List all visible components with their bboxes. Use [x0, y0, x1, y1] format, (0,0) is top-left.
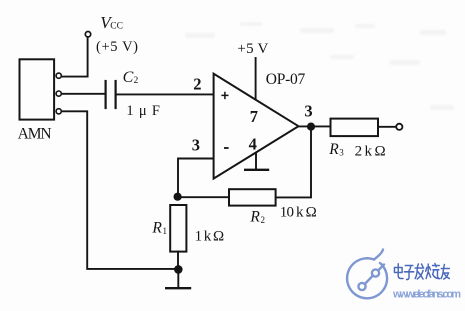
- svg-text:2: 2: [193, 75, 201, 94]
- svg-text:R: R: [249, 209, 260, 226]
- svg-text:+5 V: +5 V: [237, 41, 268, 57]
- svg-text:7: 7: [250, 107, 258, 126]
- svg-text:10 k Ω: 10 k Ω: [280, 205, 317, 221]
- svg-text:1 k Ω: 1 k Ω: [195, 229, 225, 245]
- svg-text:AMN: AMN: [18, 125, 52, 142]
- svg-text:3: 3: [304, 101, 312, 120]
- svg-text:3: 3: [339, 147, 344, 157]
- svg-text:2: 2: [261, 215, 266, 225]
- svg-text:C: C: [123, 69, 134, 86]
- svg-text:2 k Ω: 2 k Ω: [355, 143, 386, 159]
- svg-text:R: R: [151, 220, 162, 237]
- svg-text:2: 2: [134, 76, 139, 86]
- svg-text:1 μ F: 1 μ F: [126, 103, 159, 119]
- svg-text:1: 1: [163, 226, 168, 236]
- svg-text:CC: CC: [110, 21, 123, 31]
- svg-text:R: R: [328, 141, 339, 158]
- svg-text:www.elecfans.com: www.elecfans.com: [392, 289, 461, 301]
- svg-text:OP-07: OP-07: [266, 71, 306, 88]
- svg-text:3: 3: [192, 135, 200, 154]
- svg-text:4: 4: [249, 135, 257, 154]
- svg-text:(+5 V): (+5 V): [96, 39, 138, 55]
